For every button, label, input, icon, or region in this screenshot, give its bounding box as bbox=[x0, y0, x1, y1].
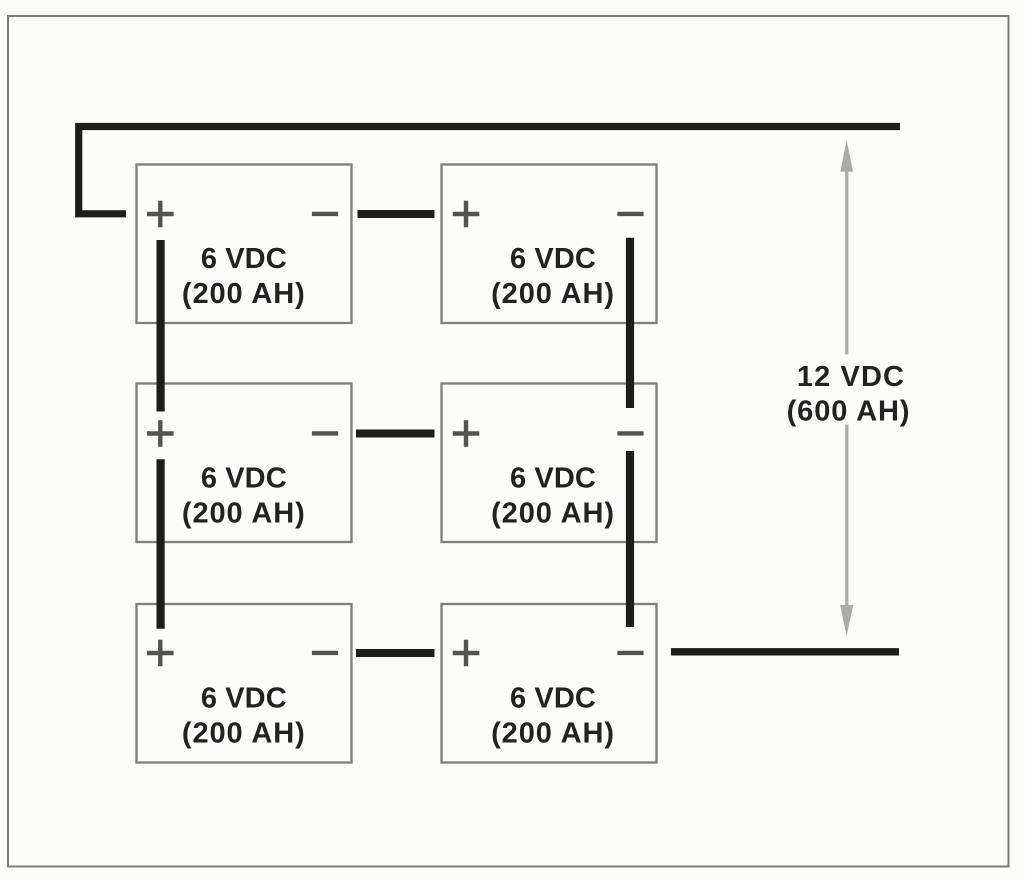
BT1 + terminal bbox=[147, 201, 174, 228]
battery BT2 (top-right) bbox=[442, 165, 657, 324]
battery BT3 (middle-left) bbox=[137, 384, 352, 543]
battery BT1 (top-left) bbox=[137, 165, 352, 324]
BT4 value label: 6 VDC (200 AH) bbox=[491, 463, 615, 530]
svg-text:6 VDC: 6 VDC bbox=[510, 463, 596, 495]
BT5 - terminal bbox=[312, 651, 338, 655]
wire: negative rail from BT6 - to the right bbox=[671, 648, 899, 655]
svg-text:(200 AH): (200 AH) bbox=[182, 278, 306, 310]
BT1 - terminal bbox=[312, 212, 338, 216]
BT6 + terminal bbox=[453, 640, 480, 667]
wire: BT4 - to BT6 - (parallel link) bbox=[626, 451, 634, 627]
BT6 - terminal bbox=[617, 651, 643, 655]
svg-text:6 VDC: 6 VDC bbox=[510, 683, 596, 715]
svg-text:(200 AH): (200 AH) bbox=[491, 718, 615, 750]
BT6 value label: 6 VDC (200 AH) bbox=[491, 683, 615, 750]
BT3 + terminal bbox=[147, 420, 174, 447]
wire: BT1 + to BT3 + (parallel link) bbox=[157, 240, 165, 412]
svg-text:6 VDC: 6 VDC bbox=[201, 463, 287, 495]
dimension arrow (12 VDC span) bbox=[840, 140, 853, 636]
label: 12 VDC (600 AH) bbox=[787, 361, 911, 428]
BT3 - terminal bbox=[312, 431, 338, 435]
wire: BT2 - to BT4 - (parallel link) bbox=[626, 238, 634, 408]
BT4 - terminal bbox=[617, 431, 643, 435]
svg-text:(600 AH): (600 AH) bbox=[787, 396, 911, 428]
BT4 + terminal bbox=[453, 420, 480, 447]
wire: BT1 - to BT2 + bbox=[358, 210, 435, 218]
wire: BT3 + to BT5 + (parallel link) bbox=[157, 459, 165, 628]
wire: BT5 - to BT6 + bbox=[356, 649, 435, 657]
BT5 value label: 6 VDC (200 AH) bbox=[182, 683, 306, 750]
svg-text:(200 AH): (200 AH) bbox=[182, 718, 306, 750]
svg-text:6 VDC: 6 VDC bbox=[201, 683, 287, 715]
svg-text:(200 AH): (200 AH) bbox=[182, 498, 306, 530]
wire: positive rail from BT1 + terminal up and across the top bbox=[79, 127, 900, 214]
svg-text:12 VDC: 12 VDC bbox=[797, 361, 905, 393]
svg-text:6 VDC: 6 VDC bbox=[510, 243, 596, 275]
battery BT4 (middle-right) bbox=[442, 384, 657, 543]
wire: BT3 - to BT4 + bbox=[356, 430, 435, 438]
BT2 - terminal bbox=[617, 212, 643, 216]
svg-text:(200 AH): (200 AH) bbox=[491, 278, 615, 310]
svg-text:6 VDC: 6 VDC bbox=[201, 243, 287, 275]
BT2 value label: 6 VDC (200 AH) bbox=[491, 243, 615, 310]
svg-text:(200 AH): (200 AH) bbox=[491, 498, 615, 530]
BT1 value label: 6 VDC (200 AH) bbox=[182, 243, 306, 310]
battery BT5 (bottom-left) bbox=[137, 604, 352, 763]
battery BT6 (bottom-right) bbox=[442, 604, 657, 763]
BT3 value label: 6 VDC (200 AH) bbox=[182, 463, 306, 530]
BT2 + terminal bbox=[453, 201, 480, 228]
BT5 + terminal bbox=[147, 640, 174, 667]
